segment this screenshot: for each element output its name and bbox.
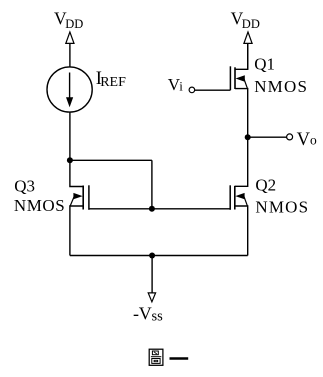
- wire bottom rail to -Vss arrow: [151, 256, 153, 294]
- label -Vss: [133, 304, 163, 325]
- svg-text:DD: DD: [242, 17, 260, 31]
- svg-text:i: i: [179, 79, 183, 94]
- label Vo: [297, 130, 317, 150]
- svg-text:Q3: Q3: [14, 177, 35, 196]
- wire bottom rail: [70, 255, 248, 257]
- power VDD symbol left (open up arrow): [66, 32, 74, 43]
- node Vo junction dot: [245, 134, 251, 140]
- terminal Vi (open circle): [189, 87, 195, 93]
- wire gate riser (vertical down to gate line): [151, 160, 153, 209]
- source arrow of Q3: [70, 197, 74, 206]
- drain lead of Q2: [235, 137, 248, 186]
- label Vi: [168, 75, 184, 94]
- label Q1: [254, 54, 308, 96]
- svg-text:ss: ss: [152, 309, 164, 325]
- gate bar of Q2: [229, 185, 231, 210]
- node C junction dot on bottom rail: [149, 253, 155, 259]
- channel bar of Q1: [234, 67, 236, 89]
- gate bar of Q1: [229, 66, 231, 90]
- label VDD (left supply): [54, 8, 83, 31]
- wire Q1 gate lead: [195, 89, 231, 91]
- transistor Q2 (NMOS, gate on left): [230, 137, 248, 255]
- svg-text:DD: DD: [65, 17, 83, 31]
- terminal Vo (open circle): [287, 134, 293, 140]
- source lead of Q2: [235, 206, 248, 256]
- svg-text:Q2: Q2: [255, 176, 276, 195]
- caption figure one (drawn glyphs): [149, 349, 188, 365]
- label IREF: [96, 69, 126, 90]
- svg-text:Q1: Q1: [254, 54, 275, 73]
- label VDD (right supply): [231, 8, 260, 31]
- svg-text:NMOS: NMOS: [254, 77, 308, 96]
- label Q3: [14, 177, 65, 215]
- label Q2: [255, 176, 309, 217]
- svg-text:V: V: [297, 130, 311, 150]
- drain lead of Q3: [70, 160, 83, 186]
- wire VDD-left to current source top: [69, 43, 71, 67]
- source lead of Q1: [235, 89, 248, 138]
- node A junction dot: [67, 157, 73, 163]
- node B junction dot on gate line: [149, 206, 155, 212]
- svg-text:REF: REF: [100, 75, 126, 90]
- wire Vo node to terminal: [248, 136, 287, 138]
- transistor Q1 (NMOS, gate on left): [230, 43, 247, 137]
- source arrow of Q2: [244, 197, 247, 206]
- source arrow of Q1: [244, 79, 247, 88]
- svg-text:o: o: [310, 132, 317, 147]
- current source I_REF circle: [47, 67, 92, 112]
- power -Vss symbol (open down arrow): [148, 293, 155, 302]
- transistor Q3 (NMOS, mirrored, gate on right): [70, 160, 89, 255]
- channel bar of Q2: [234, 186, 236, 210]
- wire VDD-right to Q1 drain: [247, 43, 249, 69]
- channel bar of Q3: [82, 186, 84, 210]
- wire node A to gate riser (horizontal): [70, 159, 152, 161]
- wire gate line Q3 to Q2: [89, 208, 230, 210]
- power VDD symbol right (open up arrow): [244, 32, 252, 43]
- wire current source bottom to node A: [69, 112, 71, 160]
- source lead of Q3: [70, 206, 83, 256]
- drain lead of Q1: [235, 43, 248, 69]
- svg-text:V: V: [139, 304, 152, 324]
- gate bar of Q3: [88, 185, 90, 210]
- svg-text:NMOS: NMOS: [255, 198, 309, 217]
- svg-text:NMOS: NMOS: [14, 196, 65, 215]
